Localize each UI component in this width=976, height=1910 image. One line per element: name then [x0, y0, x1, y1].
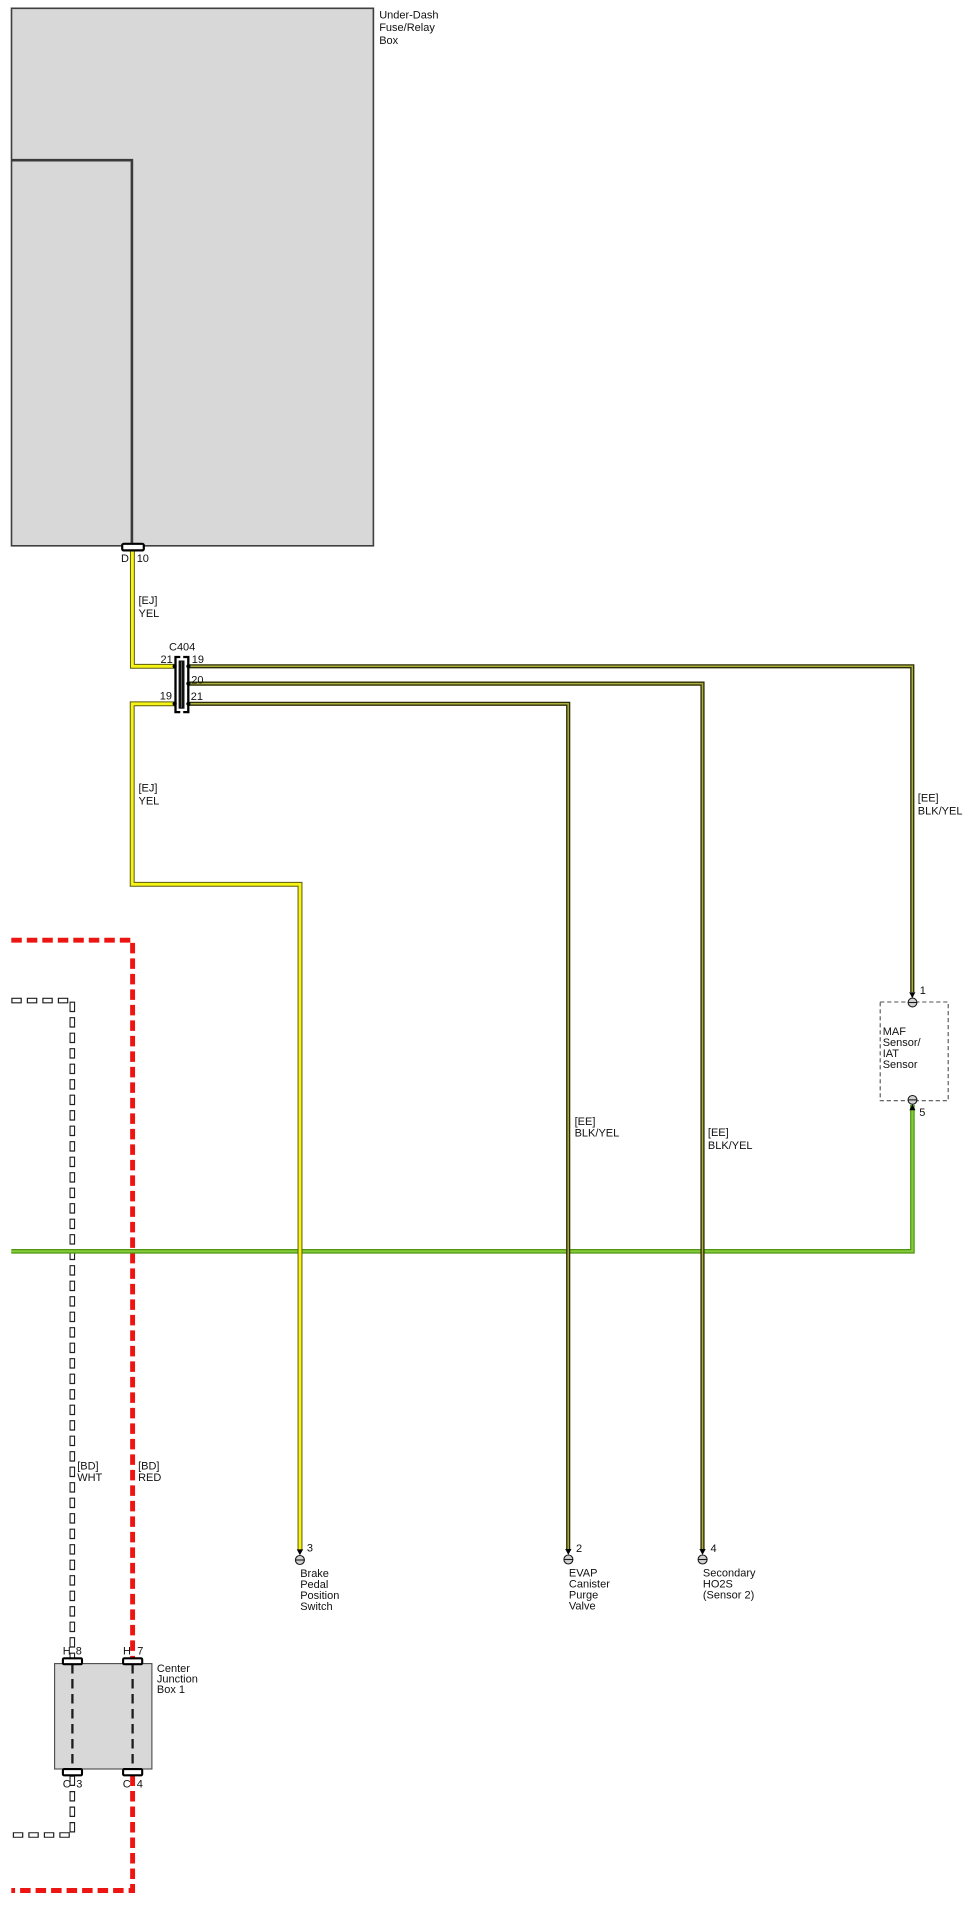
wire [EE] BLK/YEL C404 pin 21 to EVAP valve: [188, 704, 568, 1549]
wire inside junction box (right, RED path): [131, 1664, 133, 1769]
terminal 2 EVAP Canister Purge Valve: [564, 1543, 582, 1564]
svg-text:YEL: YEL: [139, 608, 160, 620]
svg-text:BLK/YEL: BLK/YEL: [575, 1128, 620, 1140]
svg-text:3: 3: [307, 1543, 313, 1555]
wire [BD] RED bottom run: [11, 1776, 132, 1891]
svg-text:7: 7: [137, 1646, 143, 1658]
svg-text:Fuse/Relay: Fuse/Relay: [379, 22, 435, 34]
arrow into EVAP terminal: [565, 1549, 571, 1555]
wire [EJ] YEL C404 pin 19 to Brake Pedal Position Switch: [132, 704, 300, 1550]
svg-text:YEL: YEL: [139, 795, 160, 807]
MAF Sensor / IAT Sensor: [880, 1002, 948, 1101]
arrow into MAF pin 1: [909, 992, 915, 998]
connector H 8: [63, 1646, 82, 1665]
label Secondary HO2S (Sensor 2): [703, 1568, 756, 1602]
svg-text:4: 4: [137, 1779, 143, 1791]
label [EJ] YEL (lower): [139, 783, 160, 808]
svg-text:[EE]: [EE]: [708, 1127, 729, 1139]
svg-text:(Sensor 2): (Sensor 2): [703, 1590, 754, 1602]
connector D 10: [121, 544, 149, 565]
terminal 3 Brake Pedal Position Switch: [295, 1543, 313, 1565]
svg-text:20: 20: [191, 674, 203, 686]
wire [EE] BLK/YEL C404 pin 20 to Secondary HO2S: [188, 684, 703, 1550]
label [BD] RED: [138, 1461, 161, 1485]
terminal 4 Secondary HO2S: [698, 1543, 717, 1564]
svg-text:[BD]: [BD]: [77, 1461, 98, 1473]
connector C404: [160, 642, 204, 713]
svg-text:RED: RED: [138, 1472, 161, 1484]
svg-text:[EJ]: [EJ]: [139, 595, 158, 607]
svg-text:21: 21: [161, 654, 173, 666]
svg-text:5: 5: [919, 1107, 925, 1119]
connector C 4: [123, 1769, 143, 1791]
svg-text:H: H: [63, 1646, 71, 1658]
svg-text:[EE]: [EE]: [918, 793, 939, 805]
wire [EE] BLK/YEL C404 pin 19 to MAF pin 1: [188, 666, 912, 992]
wire inside junction box (left, WHT path): [71, 1664, 73, 1769]
svg-text:BLK/YEL: BLK/YEL: [918, 805, 963, 817]
svg-text:D: D: [121, 553, 129, 565]
svg-text:WHT: WHT: [77, 1472, 102, 1484]
wire [BD] WHT (dashed white) top run: [11, 1001, 72, 1658]
Under-Dash Fuse/Relay Box: [12, 8, 439, 546]
svg-text:19: 19: [160, 691, 172, 703]
svg-text:4: 4: [711, 1543, 717, 1555]
svg-text:Valve: Valve: [569, 1601, 596, 1613]
svg-text:21: 21: [191, 691, 203, 703]
label [EE] BLK/YEL (right): [918, 793, 963, 818]
terminal pin 5 of MAF: [908, 1096, 925, 1120]
svg-text:Sensor: Sensor: [883, 1059, 918, 1071]
connector C 3: [63, 1769, 83, 1791]
svg-text:Box 1: Box 1: [157, 1684, 185, 1696]
svg-text:C: C: [123, 1779, 131, 1791]
svg-text:Under-Dash: Under-Dash: [379, 9, 438, 21]
wire [BD] WHT bottom run: [11, 1776, 72, 1836]
Center Junction Box 1: [55, 1663, 198, 1769]
terminal pin 1 of MAF: [908, 985, 926, 1007]
arrow into Brake Pedal Position Switch terminal: [297, 1549, 303, 1555]
svg-text:10: 10: [137, 553, 149, 565]
svg-text:8: 8: [76, 1646, 82, 1658]
svg-text:H: H: [123, 1646, 131, 1658]
label Brake Pedal Position Switch: [300, 1568, 339, 1613]
label [EJ] YEL (upper): [139, 595, 160, 620]
svg-text:[EE]: [EE]: [575, 1116, 596, 1128]
wire [EJ] YEL from D10 to C404: [132, 549, 174, 666]
svg-text:19: 19: [192, 654, 204, 666]
label [EE] BLK/YEL (HO2S): [708, 1127, 753, 1152]
svg-text:2: 2: [576, 1543, 582, 1555]
svg-text:[EJ]: [EJ]: [139, 783, 158, 795]
wire: black wire inside fuse box: [12, 160, 132, 544]
connector H 7: [123, 1646, 143, 1665]
wire GRN from MAF pin 5: [11, 1105, 912, 1251]
svg-text:1: 1: [920, 985, 926, 997]
svg-text:[BD]: [BD]: [138, 1461, 159, 1473]
svg-text:3: 3: [76, 1779, 82, 1791]
label [EE] BLK/YEL (EVAP): [575, 1116, 620, 1140]
svg-text:Switch: Switch: [300, 1601, 332, 1613]
svg-text:C: C: [63, 1779, 71, 1791]
wire [BD] RED (dashed red) top run: [11, 940, 132, 1658]
label [BD] WHT: [77, 1461, 102, 1485]
svg-text:Box: Box: [379, 35, 398, 47]
svg-text:C404: C404: [169, 642, 195, 654]
arrow up from green wire to MAF pin 5: [909, 1104, 915, 1110]
label EVAP Canister Purge Valve: [569, 1568, 610, 1613]
arrow into Secondary HO2S terminal: [699, 1549, 705, 1555]
svg-text:BLK/YEL: BLK/YEL: [708, 1140, 753, 1152]
